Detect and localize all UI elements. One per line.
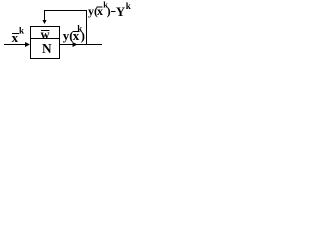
divider wire inside box [30,38,60,40]
wire: output line [60,44,102,46]
svg-text:w: w [41,28,50,42]
label y(x-bar^k) [63,23,85,43]
wire: input line [4,44,27,46]
svg-text:): ) [81,28,85,43]
node label x-bar^k [12,25,24,45]
label w-bar (weights) [41,28,50,42]
svg-text:Y: Y [116,5,125,19]
svg-text:N: N [42,41,52,56]
wire: feedback line (output up and over to box top) [45,11,87,45]
box U1 (network block) [31,27,60,59]
feedback down arrowhead into box [42,20,46,24]
svg-text:k: k [19,25,24,35]
svg-text:x: x [12,30,19,45]
svg-text:k: k [126,1,131,11]
svg-text:x: x [97,4,103,18]
input arrowhead [25,42,30,47]
output mid arrowhead [73,42,78,47]
svg-text:): ) [107,4,111,18]
label y(x-bar^k)-Y^k (error term) [88,0,131,19]
